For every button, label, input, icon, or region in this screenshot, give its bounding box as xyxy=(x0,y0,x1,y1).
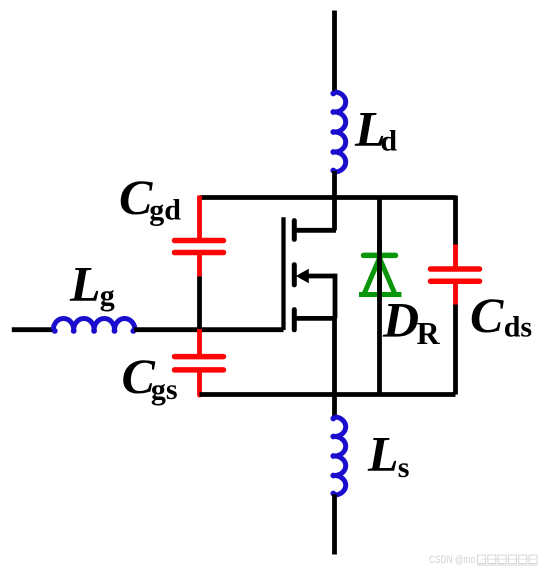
svg-text:s: s xyxy=(398,451,410,484)
wire gate node vertical black xyxy=(197,277,202,332)
capacitor Cgs top lead xyxy=(197,329,202,354)
transistor Q1 middle channel bar xyxy=(292,265,297,285)
svg-text:ds: ds xyxy=(504,311,532,344)
capacitor Cgd top plate xyxy=(175,238,224,244)
svg-text:g: g xyxy=(100,279,115,312)
capacitor Cgd bottom lead xyxy=(197,253,202,278)
wire diode branch vertical xyxy=(377,196,382,395)
wire diode over-line xyxy=(377,240,382,300)
svg-text:C: C xyxy=(119,169,153,225)
inductor Lg xyxy=(53,319,135,330)
wire body vertical xyxy=(333,274,338,319)
svg-text:L: L xyxy=(69,256,101,312)
capacitor Cgd top lead xyxy=(197,196,202,239)
wire drain vertical xyxy=(332,196,337,231)
inductor Ld xyxy=(335,92,346,172)
svg-text:C: C xyxy=(470,287,504,343)
svg-text:L: L xyxy=(367,426,399,482)
wire top rail xyxy=(200,195,456,200)
wire gate horizontal to mosfet xyxy=(134,327,284,332)
capacitor Cgs bottom lead xyxy=(197,370,202,395)
capacitor Cgs top plate xyxy=(175,354,224,360)
capacitor Cgs bottom plate xyxy=(175,367,224,373)
transistor Q1 arrowhead xyxy=(296,269,309,283)
diode DR triangle sides xyxy=(365,258,395,293)
capacitor Cds bottom black lead xyxy=(453,305,458,395)
inductor Ls xyxy=(335,417,346,495)
svg-text:D: D xyxy=(382,292,419,348)
transistor Q1 top channel bar xyxy=(292,221,297,240)
wire top drain lead xyxy=(332,11,337,94)
capacitor Cds bottom plate xyxy=(431,278,480,284)
wire source vertical to Ls xyxy=(332,318,337,418)
capacitor Cds top red lead xyxy=(453,245,458,268)
transistor Q1 bottom channel bar xyxy=(292,310,297,330)
diode DR anode base xyxy=(359,292,402,297)
svg-text:gd: gd xyxy=(149,194,181,227)
wire bottom source lead xyxy=(332,494,337,555)
capacitor Cgd bottom plate xyxy=(175,250,224,256)
svg-text:R: R xyxy=(417,315,441,351)
wire drain stub xyxy=(294,228,336,233)
capacitor Cds bottom red lead xyxy=(453,281,458,305)
wire bottom rail xyxy=(200,392,456,397)
wire Ld to top rail xyxy=(332,171,337,199)
wire gate horizontal left lead xyxy=(12,327,54,332)
svg-text:gs: gs xyxy=(151,373,178,406)
wire source stub xyxy=(294,316,335,321)
svg-text:CSDN @mo: CSDN @mo xyxy=(429,554,475,566)
diode DR cathode bar xyxy=(364,253,396,259)
capacitor Cds top black lead xyxy=(453,196,458,247)
capacitor Cds top plate xyxy=(431,266,480,272)
transistor Q1 gate line xyxy=(281,217,285,330)
svg-text:d: d xyxy=(380,125,397,158)
transistor Q1 body arrow wire xyxy=(306,274,335,279)
